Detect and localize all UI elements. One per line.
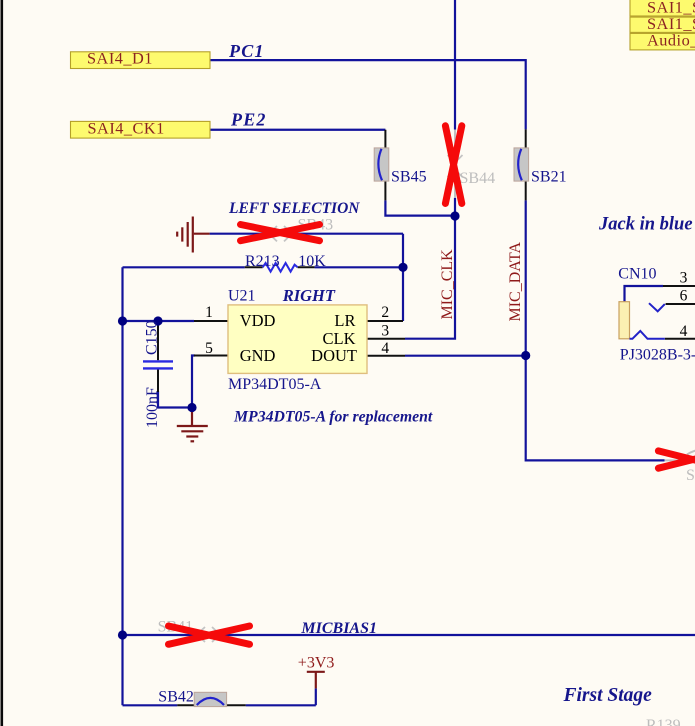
svg-text:100nF: 100nF bbox=[144, 387, 161, 428]
svg-text:4: 4 bbox=[680, 323, 688, 340]
svg-text:5: 5 bbox=[205, 340, 213, 357]
svg-text:3: 3 bbox=[680, 269, 688, 286]
svg-text:SB42: SB42 bbox=[158, 689, 194, 706]
svg-text:CN10: CN10 bbox=[618, 266, 656, 283]
svg-text:1: 1 bbox=[205, 304, 213, 321]
svg-text:First Stage: First Stage bbox=[563, 685, 653, 706]
svg-text:2: 2 bbox=[381, 304, 389, 321]
svg-text:SB21: SB21 bbox=[531, 169, 567, 186]
svg-text:DOUT: DOUT bbox=[311, 346, 357, 365]
svg-text:Jack in blue: Jack in blue bbox=[598, 215, 693, 235]
svg-text:VDD: VDD bbox=[240, 311, 276, 330]
svg-text:SAI4_CK1: SAI4_CK1 bbox=[88, 118, 165, 137]
svg-text:MIC_DATA: MIC_DATA bbox=[507, 241, 524, 321]
svg-text:MP34DT05-A for replacement: MP34DT05-A for replacement bbox=[233, 409, 433, 426]
svg-text:PJ3028B-3-: PJ3028B-3- bbox=[620, 346, 695, 363]
svg-text:PC1: PC1 bbox=[228, 41, 265, 61]
svg-text:R213: R213 bbox=[245, 253, 280, 270]
svg-text:PE2: PE2 bbox=[230, 110, 267, 130]
svg-text:MP34DT05-A: MP34DT05-A bbox=[228, 376, 322, 393]
svg-text:SAI4_D1: SAI4_D1 bbox=[87, 49, 153, 68]
svg-text:CLK: CLK bbox=[323, 329, 356, 348]
svg-text:SB: SB bbox=[686, 467, 695, 484]
svg-text:MIC_CLK: MIC_CLK bbox=[439, 249, 456, 320]
svg-text:RIGHT: RIGHT bbox=[282, 286, 336, 305]
svg-text:C150: C150 bbox=[144, 320, 161, 355]
svg-text:R139: R139 bbox=[646, 717, 681, 726]
svg-text:Audio_: Audio_ bbox=[647, 31, 695, 50]
svg-text:MICBIAS1: MICBIAS1 bbox=[300, 620, 377, 637]
svg-text:SB44: SB44 bbox=[460, 170, 496, 187]
svg-text:+3V3: +3V3 bbox=[298, 655, 335, 672]
svg-text:GND: GND bbox=[240, 346, 276, 365]
svg-text:SB45: SB45 bbox=[391, 169, 427, 186]
svg-text:LR: LR bbox=[334, 311, 355, 330]
svg-text:4: 4 bbox=[381, 340, 389, 357]
svg-text:3: 3 bbox=[381, 322, 389, 339]
svg-text:LEFT SELECTION: LEFT SELECTION bbox=[228, 200, 360, 217]
svg-text:6: 6 bbox=[680, 288, 688, 305]
svg-text:10K: 10K bbox=[298, 253, 326, 270]
svg-text:U21: U21 bbox=[228, 288, 256, 305]
